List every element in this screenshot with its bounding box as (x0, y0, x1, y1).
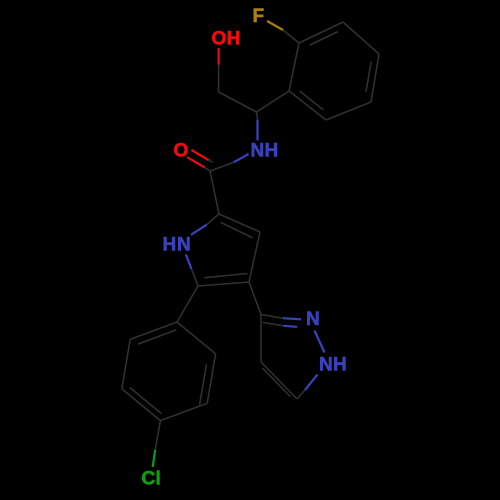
wire: pyrrole bond N1-C2 dark half (207, 214, 219, 225)
wire: pyrazole bond C3=N2 main dark half (261, 315, 283, 319)
wire: chlorophenyl ring bond C6'-C1' (177, 322, 216, 354)
wire: pyrazole bond C3=N2 lower dark half (263, 323, 284, 326)
wire: chlorophenyl ring bond C4'-C5' (160, 403, 207, 420)
wire: chlorophenyl ring bond C3'-C4' (122, 389, 161, 421)
wire: pyrazole bond N2-N1 blue (315, 331, 325, 353)
wire: fluorophenyl ring bond C2-C3 inner double (310, 32, 338, 45)
wire: fluorophenyl ring bond C4-C5 inner double (366, 62, 371, 93)
wire: bond F-C2 dark half (283, 30, 299, 43)
svg-text:OH: OH (212, 29, 241, 50)
wire: fluorophenyl ring bond C6-C1 inner double (300, 91, 324, 110)
svg-text:N: N (306, 309, 320, 330)
wire: fluorophenyl ring bond C4-C5 (371, 54, 379, 102)
wire: bond CH2-CH (219, 92, 257, 112)
wire: bond C5(pyrrole)-C1'(chlorophenyl) (177, 286, 198, 322)
svg-text:HN: HN (163, 235, 192, 256)
wire: fluorophenyl ring bond C5-C6 (326, 102, 371, 120)
wire: pyrazole bond C5-C4 (261, 362, 297, 399)
wire: C=O double bond upper red line (191, 150, 208, 160)
svg-text:F: F (253, 6, 265, 27)
wire: bond F-C2 orange half (267, 21, 283, 30)
wire: chlorophenyl ring bond C2'-C3' (122, 339, 130, 388)
wire: pyrrole bond C2-C3 (219, 214, 260, 232)
svg-text:O: O (174, 140, 189, 161)
wire: chlorophenyl ring bond C3'-C4' inner double (130, 388, 162, 414)
wire: pyrazole bond C3=N2 lower blue half (284, 326, 298, 327)
wire: pyrazole bond N1-C5 dark half (297, 390, 305, 399)
wire: pyrrole bond C5-N1 blue half (186, 255, 192, 270)
wire: pyrazole bond C3=N2 main blue half (283, 318, 301, 319)
wire: bond O(OH)-CH2 red half (218, 48, 220, 65)
wire: bond N(amide)-C(=O) blue half (234, 154, 249, 162)
wire: C=O double bond lower dark stub (205, 167, 210, 171)
wire: pyrrole bond N1-C2 blue half (191, 225, 207, 235)
wire: pyrrole bond C2-C3 inner double (221, 222, 253, 238)
wire: chlorophenyl ring bond C5'-C6' inner double (200, 364, 207, 404)
wire: fluorophenyl ring bond C2-C3 (299, 22, 343, 43)
wire: pyrrole bond C4-C5 (198, 282, 249, 286)
svg-text:Cl: Cl (142, 469, 162, 490)
wire: pyrrole bond C5-N1 dark half (192, 269, 199, 286)
wire: bond CH-C1(fluorophenyl) (257, 91, 290, 112)
svg-text:NH: NH (251, 141, 279, 162)
wire: pyrazole bond C5-C4 inner double (263, 368, 291, 396)
wire: C=O double bond upper dark stub (209, 160, 213, 162)
wire: bond CH-N(amide) blue half (256, 120, 258, 141)
wire: pyrazole bond C4-C3 (260, 315, 262, 363)
wire: fluorophenyl ring bond C6-C1 (289, 91, 326, 120)
wire: bond C4'-Cl dark half (155, 421, 160, 450)
wire: bond CH-N(amide) dark half (257, 112, 258, 120)
wire: bond C4'-Cl green half (153, 450, 156, 467)
wire: C=O double bond lower red line (187, 157, 204, 167)
wire: chlorophenyl ring bond C1'-C2' inner double (138, 330, 176, 344)
wire: pyrazole bond N1-C5 blue half (305, 375, 318, 391)
wire: pyrrole bond C4-C5 inner double (204, 274, 247, 278)
wire: fluorophenyl ring bond C3-C4 (343, 22, 379, 54)
svg-text:NH: NH (319, 355, 347, 376)
wire: bond O(OH)-CH2 dark half (218, 65, 220, 92)
wire: chlorophenyl ring bond C1'-C2' (130, 322, 177, 339)
wire: bond C4(pyrrole)-C3(pyrazole) (249, 282, 261, 315)
wire: chlorophenyl ring bond C5'-C6' (207, 354, 215, 403)
wire: bond C(=O)-C2(pyrrole) (210, 171, 219, 214)
wire: fluorophenyl ring bond C1-C2 (289, 43, 299, 91)
wire: bond N(amide)-C(=O) dark half (210, 162, 234, 171)
wire: pyrrole bond C3-C4 (249, 232, 260, 282)
